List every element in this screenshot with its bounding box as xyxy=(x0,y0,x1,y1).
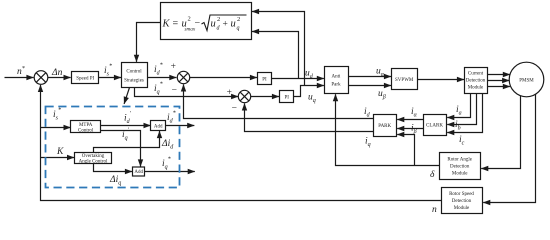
svg-text:u: u xyxy=(231,19,236,30)
svg-text:−: − xyxy=(231,104,237,114)
svg-text:Speed PI: Speed PI xyxy=(76,77,94,82)
wire iq* output of Add2 xyxy=(145,171,195,173)
block Speed PI xyxy=(72,72,99,84)
svg-text:is*: is* xyxy=(104,64,112,78)
svg-text:=: = xyxy=(173,19,179,30)
wire ic tap to CLARK xyxy=(447,94,482,133)
svg-text:Module: Module xyxy=(468,86,484,91)
svg-text:Δn: Δn xyxy=(51,68,63,78)
svg-text:Add: Add xyxy=(134,170,143,175)
wire u-alpha xyxy=(349,76,392,78)
block Rotor Angle Detection Module xyxy=(440,153,481,180)
svg-text:uq: uq xyxy=(308,93,316,105)
svg-text:n: n xyxy=(432,205,437,215)
dashed module boundary xyxy=(46,107,180,188)
formula K = us_max^2 - sqrt(ud^2+uq^2) xyxy=(162,15,247,33)
svg-text:n*: n* xyxy=(17,66,25,77)
svg-text:id: id xyxy=(364,107,371,119)
svg-text:uβ: uβ xyxy=(378,89,386,101)
wire speed sum to Speed PI xyxy=(48,77,71,79)
wire delta to Anti Park xyxy=(336,94,440,165)
wire K output to Control Strategies top xyxy=(137,23,161,62)
wire Control Strategies id* to d-sum xyxy=(148,77,177,79)
svg-text:δ: δ xyxy=(430,170,435,180)
svg-text:+: + xyxy=(170,62,176,72)
block PI d-axis xyxy=(258,73,272,85)
wire d-sum to PI1 xyxy=(190,77,257,79)
wire SVPWM to Current Detection Module xyxy=(418,79,465,81)
svg-text:iq*: iq* xyxy=(154,82,163,96)
svg-text:ic: ic xyxy=(459,135,465,147)
wire delta-id Overtaking to Add1 xyxy=(94,131,160,153)
svg-text:ia: ia xyxy=(456,105,462,117)
svg-text:2: 2 xyxy=(237,16,240,23)
block Current Detection Module xyxy=(465,68,488,94)
svg-text:MTPA: MTPA xyxy=(79,123,93,128)
wire K into Overtaking Angle Control xyxy=(41,157,75,159)
wire ib tap to CLARK xyxy=(447,94,476,125)
block CLARK xyxy=(424,115,447,136)
wire CDM to PMSM phase b xyxy=(488,80,510,82)
wire id feedback PARK to d-sum xyxy=(184,84,374,118)
wire iq' MTPA to Add2 xyxy=(101,131,141,167)
wire u-beta xyxy=(349,85,392,87)
svg-text:u: u xyxy=(211,19,216,30)
svg-text:id*: id* xyxy=(154,63,163,77)
wire ud PI1 to AntiPark xyxy=(272,78,324,80)
svg-text:Δid: Δid xyxy=(161,139,174,151)
svg-text:K: K xyxy=(162,19,171,30)
svg-text:CLARK: CLARK xyxy=(426,124,443,129)
block Overtaking Angle Control xyxy=(75,153,112,164)
svg-text:Detection: Detection xyxy=(450,165,470,170)
svg-text:PI: PI xyxy=(284,96,289,101)
svg-text:id*: id* xyxy=(167,111,176,125)
svg-text:iq*: iq* xyxy=(162,157,171,171)
svg-text:ib: ib xyxy=(455,120,461,132)
svg-text:Anti: Anti xyxy=(332,75,342,80)
wire Speed PI to Control Strategies xyxy=(99,77,122,79)
wire ud tap to K box xyxy=(252,32,299,79)
svg-text:K: K xyxy=(56,147,64,157)
svg-text:Δiq: Δiq xyxy=(109,175,121,187)
motor PMSM xyxy=(509,62,544,97)
svg-text:Detection: Detection xyxy=(452,199,472,204)
svg-text:Current: Current xyxy=(468,72,484,77)
block label texts xyxy=(76,70,534,212)
block Control Strategies xyxy=(122,63,148,88)
svg-text:d: d xyxy=(217,26,221,32)
wire uq tap to K box xyxy=(252,12,305,86)
wire id' MTPA to Add1 xyxy=(101,125,151,127)
wire Control Strategies iq* to q-sum xyxy=(135,88,239,97)
wire ia tap to CLARK xyxy=(447,94,470,118)
wire delta-iq Overtaking to Add2 xyxy=(94,164,133,172)
svg-text:Module: Module xyxy=(454,206,470,211)
svg-text:−: − xyxy=(171,86,177,96)
label texts xyxy=(17,62,465,215)
svg-text:PMSM: PMSM xyxy=(519,79,534,84)
block Add2 xyxy=(133,167,145,176)
block MTPA Control xyxy=(71,121,101,133)
wire i-alpha CLARK to PARK xyxy=(397,119,423,121)
svg-text:iq: iq xyxy=(365,137,371,149)
svg-text:Strategies: Strategies xyxy=(124,79,144,84)
wire CDM to PMSM phase c xyxy=(488,86,510,88)
svg-text:q: q xyxy=(237,26,240,32)
svg-text:SVPWM: SVPWM xyxy=(395,78,414,83)
wire PMSM to Rotor Speed Detection Module xyxy=(483,94,535,203)
svg-text:is*: is* xyxy=(53,108,61,122)
wire q-sum to PI2 xyxy=(251,96,279,98)
svg-text:+: + xyxy=(226,88,232,98)
block K formula xyxy=(161,3,252,40)
wire i-beta CLARK to PARK xyxy=(397,128,423,130)
svg-text:iβ: iβ xyxy=(411,124,417,136)
svg-text:id′: id′ xyxy=(124,111,132,125)
svg-text:−: − xyxy=(195,18,201,29)
wire iq feedback PARK to q-sum xyxy=(245,103,374,131)
svg-text:iq′: iq′ xyxy=(122,128,130,142)
svg-text:Control: Control xyxy=(126,70,142,75)
svg-text:ud: ud xyxy=(305,69,314,81)
svg-text:Rotor Speed: Rotor Speed xyxy=(449,192,474,197)
wire n* input xyxy=(5,77,34,79)
block Add1 xyxy=(151,121,166,131)
svg-text:uα: uα xyxy=(376,67,385,79)
svg-text:2: 2 xyxy=(188,16,191,23)
block SVPWM xyxy=(392,69,418,90)
svg-text:Rotor Angle: Rotor Angle xyxy=(447,158,472,163)
svg-text:Control: Control xyxy=(78,129,94,134)
wire is* into MTPA xyxy=(41,127,71,129)
block Anti Park xyxy=(325,67,349,94)
svg-text:Detection: Detection xyxy=(466,79,486,84)
svg-text:Overtaking: Overtaking xyxy=(82,154,105,159)
svg-text:Module: Module xyxy=(452,172,468,177)
svg-text:+: + xyxy=(223,20,228,30)
wire Control Strategies to dashed module xyxy=(124,88,129,104)
summing junction d-axis xyxy=(177,71,189,83)
svg-text:2: 2 xyxy=(217,16,220,23)
svg-text:Angle Control: Angle Control xyxy=(79,160,108,165)
svg-text:iα: iα xyxy=(411,107,418,119)
wire CDM to PMSM phase a xyxy=(488,74,510,76)
svg-text:Park: Park xyxy=(331,83,341,88)
wire PMSM to Rotor Angle Detection Module xyxy=(481,96,520,169)
block PI q-axis xyxy=(280,91,294,103)
svg-text:PARK: PARK xyxy=(378,124,391,129)
wire delta branch to PARK xyxy=(397,135,414,166)
block PARK xyxy=(374,115,397,137)
wire uq PI2 to AntiPark xyxy=(294,86,324,97)
wire id* output of Add1 xyxy=(166,125,195,127)
wire n feedback to speed sum xyxy=(41,85,442,201)
svg-text:PI: PI xyxy=(262,78,267,83)
summing junction q-axis xyxy=(238,90,250,102)
svg-text:Add: Add xyxy=(154,125,163,130)
block Rotor Speed Detection Module xyxy=(442,188,483,214)
summing junction speed xyxy=(34,71,48,85)
